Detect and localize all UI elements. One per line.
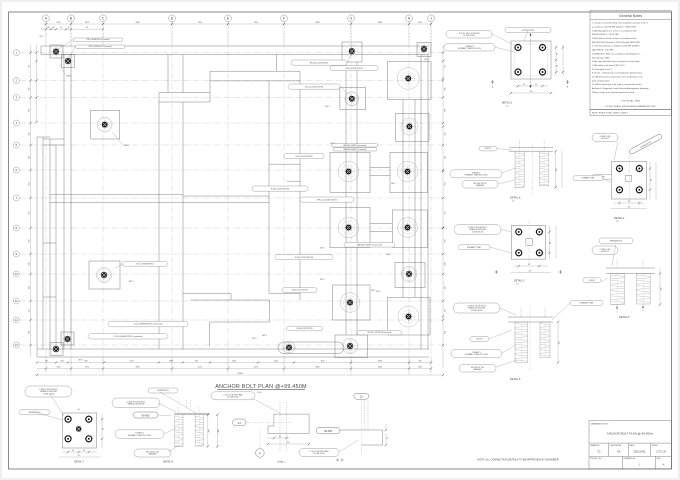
svg-text:472: 472	[445, 309, 447, 312]
svg-text:DRAWN BY:: DRAWN BY:	[590, 444, 601, 447]
svg-text:210: 210	[530, 91, 533, 93]
svg-text:DETAIL-6: DETAIL-6	[510, 197, 521, 200]
svg-text:13: 13	[360, 395, 364, 399]
svg-text:60: 60	[523, 84, 525, 86]
svg-text:150: 150	[47, 27, 50, 29]
svg-text:prior to fabrication: prior to fabrication	[592, 79, 610, 82]
svg-text:472: 472	[28, 309, 30, 312]
svg-text:508: 508	[445, 263, 447, 266]
svg-text:P.W 01/2/81, JWM: P.W 01/2/81, JWM	[622, 101, 640, 103]
svg-text:accordance with BS EN 10025-2: accordance with BS EN 10025-2 : S355 UNO	[592, 25, 636, 28]
svg-text:22.16.2-SHS80*80*8.0 (unnamed): 22.16.2-SHS80*80*8.0 (unnamed)	[114, 336, 143, 338]
svg-text:DETAIL-5: DETAIL-5	[510, 378, 521, 381]
svg-text:PROJECT No.: PROJECT No.	[590, 458, 602, 460]
svg-text:3. All hollow sections to be i: 3. All hollow sections to be in accordan…	[592, 37, 637, 40]
svg-text:22.76.7-SHS80*80*8.0: 22.76.7-SHS80*80*8.0	[136, 263, 154, 265]
svg-text:7. All welds to be 6mm FW U.N.: 7. All welds to be 6mm FW U.N.O	[592, 64, 625, 67]
svg-text:EXPAMET TUBE 350 LONG: EXPAMET TUBE 350 LONG	[128, 434, 151, 437]
svg-text:GROUT: GROUT	[485, 148, 492, 150]
svg-text:General Notes: General Notes	[619, 14, 642, 18]
svg-text:99.450: 99.450	[324, 429, 332, 433]
svg-text:5080: 5080	[136, 366, 140, 368]
svg-text:DRAWING No:: DRAWING No:	[624, 457, 636, 460]
svg-text:565: 565	[195, 360, 198, 362]
svg-text:350: 350	[661, 288, 663, 291]
svg-text:DETAIL-7: DETAIL-7	[74, 461, 85, 464]
svg-text:716: 716	[28, 65, 30, 68]
svg-text:J: J	[430, 17, 432, 21]
svg-text:13: 13	[15, 343, 19, 347]
svg-text:DETAIL-8: DETAIL-8	[163, 461, 174, 464]
svg-text:4300: 4300	[378, 22, 382, 24]
svg-text:(8g. HSFG) : S10 JR0: (8g. HSFG) : S10 JR0	[592, 50, 614, 52]
svg-text:90: 90	[528, 264, 530, 266]
svg-text:Please notify us of any discre: Please notify us of any discrepancies fo…	[592, 91, 635, 94]
svg-text:REV:: REV:	[657, 458, 662, 460]
svg-text:JW7.5: JW7.5	[78, 360, 83, 362]
svg-text:350: 350	[556, 169, 558, 172]
svg-text:2210: 2210	[274, 360, 278, 362]
svg-text:12: 12	[15, 318, 19, 322]
svg-text:60: 60	[83, 450, 85, 452]
svg-text:F: F	[283, 17, 285, 21]
svg-text:400: 400	[218, 430, 220, 433]
svg-text:1:5: 1:5	[506, 106, 509, 108]
svg-text:8.200-UC203*203*46: 8.200-UC203*203*46	[296, 328, 312, 330]
svg-text:1:75 1:20: 1:75 1:20	[656, 451, 667, 454]
svg-text:170: 170	[279, 436, 282, 438]
svg-text:EXPAMET TUBE: EXPAMET TUBE	[580, 302, 594, 305]
svg-text:JW7.5: JW7.5	[320, 248, 325, 250]
svg-text:EXPAMET TUBE: EXPAMET TUBE	[467, 246, 481, 249]
svg-text:1340: 1340	[232, 360, 236, 362]
svg-text:4170: 4170	[254, 366, 258, 368]
svg-text:4960: 4960	[316, 366, 320, 368]
svg-text:755: 755	[28, 212, 30, 215]
svg-text:9. Finish : Galvanised as per: 9. Finish : Galvanised as per Engineer S…	[592, 72, 643, 75]
svg-text:C06.4-UC203*203*46: C06.4-UC203*203*46	[295, 156, 312, 158]
svg-text:Specification URS: Specification URS	[592, 56, 610, 59]
svg-text:745: 745	[45, 360, 48, 362]
svg-text:JW7.5: JW7.5	[124, 145, 129, 147]
svg-text:2375: 2375	[85, 366, 89, 368]
svg-text:DETAIL-i: DETAIL-i	[277, 461, 286, 464]
svg-text:HD BOLT: HD BOLT	[601, 251, 610, 253]
svg-text:EXPAMET TUBE 350 LONG: EXPAMET TUBE 350 LONG	[458, 47, 481, 50]
svg-text:ANCHOR BOLT PLAN @+99.450M: ANCHOR BOLT PLAN @+99.450M	[215, 384, 307, 390]
svg-text:633: 633	[28, 156, 30, 159]
svg-text:633: 633	[445, 109, 447, 112]
svg-text:90: 90	[103, 428, 105, 430]
svg-text:EXPAMET TUBE 350 LONG: EXPAMET TUBE 350 LONG	[465, 353, 488, 356]
svg-text:1:5: 1:5	[516, 283, 519, 285]
svg-text:350: 350	[559, 342, 561, 345]
svg-text:4300: 4300	[378, 366, 382, 368]
svg-text:G: G	[350, 17, 353, 21]
svg-text:99.450: 99.450	[142, 413, 150, 417]
svg-text:90: 90	[557, 65, 559, 67]
svg-text:8.200-UC203*203*46: 8.200-UC203*203*46	[295, 257, 313, 259]
svg-text:1815: 1815	[57, 22, 61, 24]
svg-text:DETAIL-2: DETAIL-2	[502, 102, 513, 105]
svg-text:BS EN 10025-2 : S275 JR0: BS EN 10025-2 : S275 JR0	[592, 34, 619, 36]
svg-text:210: 210	[628, 207, 631, 209]
svg-text:F: F	[259, 452, 261, 456]
svg-text:94: 94	[60, 27, 62, 29]
svg-text:C03-1-UC203*203*46: C03-1-UC203*203*46	[305, 86, 323, 88]
svg-text:SCALE:: SCALE:	[652, 444, 659, 447]
svg-text:8.200-UC203*203*46: 8.200-UC203*203*46	[271, 188, 289, 190]
svg-text:SHS80*80*8.0: SHS80*80*8.0	[157, 390, 169, 392]
svg-text:4170: 4170	[198, 366, 202, 368]
svg-text:633: 633	[28, 109, 30, 112]
svg-text:DETAIL-4: DETAIL-4	[614, 217, 625, 220]
svg-text:JW7.5: JW7.5	[376, 291, 381, 293]
svg-text:1980: 1980	[378, 360, 382, 362]
svg-text:2-M1.2-SHS80*80*8.0 (unnamed): 2-M1.2-SHS80*80*8.0 (unnamed)	[88, 46, 112, 48]
svg-text:4960: 4960	[316, 22, 320, 24]
svg-text:4170: 4170	[198, 22, 202, 24]
svg-text:10: 10	[15, 272, 19, 276]
svg-text:22 DIA. HOLE: 22 DIA. HOLE	[471, 309, 483, 312]
svg-text:22.16.2-SHS80*80*8.0 (unnamed): 22.16.2-SHS80*80*8.0 (unnamed)	[134, 324, 163, 326]
svg-text:90: 90	[550, 242, 552, 244]
svg-text:633: 633	[28, 240, 30, 243]
svg-text:1210: 1210	[130, 360, 134, 362]
svg-text:2375: 2375	[85, 22, 89, 24]
svg-text:10. All dimensions and levels: 10. All dimensions and levels to be conf…	[592, 76, 644, 79]
svg-text:280: 280	[85, 360, 88, 362]
svg-text:BR-24-UC203*203*46: BR-24-UC203*203*46	[310, 62, 329, 64]
svg-text:5. All Anchors Bolts in acco: 5. All Anchors Bolts in accordance with …	[592, 52, 641, 55]
svg-text:1. Grades for all hot rolled: 1. Grades for all hot rolled steel stand…	[592, 22, 649, 25]
svg-text:GROUT: GROUT	[476, 339, 483, 341]
svg-text:2980: 2980	[169, 360, 173, 362]
svg-text:HD BOLT: HD BOLT	[601, 138, 610, 140]
svg-text:NOTE: EXECUTION CLASS: CLASS 2: NOTE: EXECUTION CLASS: CLASS 2	[592, 112, 629, 115]
svg-text:18 DIA. HOLE: 18 DIA. HOLE	[313, 452, 325, 455]
svg-text:5080: 5080	[136, 22, 140, 24]
svg-text:694: 694	[28, 183, 30, 186]
svg-text:18 DIA. HOLE: 18 DIA. HOLE	[227, 396, 239, 399]
svg-text:1625: 1625	[418, 366, 422, 368]
svg-text:633: 633	[445, 156, 447, 159]
svg-text:1815: 1815	[57, 366, 61, 368]
svg-text:1625: 1625	[418, 22, 422, 24]
svg-text:508: 508	[28, 263, 30, 266]
svg-text:DO NOT SCALE, USE FIGURED DIME: DO NOT SCALE, USE FIGURED DIMENSIONS ONL…	[605, 105, 656, 108]
svg-text:EXPAMET TUBE 350 LONG: EXPAMET TUBE 350 LONG	[465, 174, 488, 177]
svg-text:22 DIA. HOLE: 22 DIA. HOLE	[463, 34, 475, 37]
svg-text:633: 633	[28, 331, 30, 334]
svg-text:2. All filling plates etc to b: 2. All filling plates etc to be in accor…	[592, 29, 637, 32]
svg-text:118: 118	[287, 442, 290, 444]
svg-text:90: 90	[651, 179, 653, 181]
svg-text:TD: TD	[597, 451, 600, 454]
svg-text:75: 75	[387, 437, 389, 439]
svg-text:210: 210	[78, 455, 81, 457]
svg-text:JW7.5: JW7.5	[371, 290, 376, 292]
svg-text:GRADE 4.6/G250GR: GRADE 4.6/G250GR	[128, 402, 146, 405]
svg-text:JW7.5: JW7.5	[262, 335, 267, 337]
svg-text:430: 430	[419, 360, 422, 362]
svg-text:11: 11	[15, 299, 18, 303]
svg-text:267.5: 267.5	[40, 36, 44, 38]
svg-text:633: 633	[445, 240, 447, 243]
svg-text:22 DIA. HOLE: 22 DIA. HOLE	[43, 392, 55, 395]
svg-text:94: 94	[68, 27, 70, 29]
svg-text:DETAIL-5: DETAIL-5	[619, 316, 630, 319]
svg-text:WASHER: WASHER	[476, 184, 485, 187]
svg-text:210: 210	[529, 271, 532, 273]
svg-text:550: 550	[28, 133, 30, 136]
svg-text:8.200-UC203*203*46: 8.200-UC203*203*46	[291, 290, 307, 292]
svg-text:661: 661	[28, 286, 30, 289]
svg-text:22 DIA. HOLE: 22 DIA. HOLE	[472, 230, 484, 233]
svg-text:975: 975	[86, 27, 89, 29]
svg-text:27445: 27445	[237, 373, 242, 375]
svg-text:EXPAMET TUBE: EXPAMET TUBE	[582, 177, 596, 180]
svg-text:Architect's, Engineer's and Ge: Architect's, Engineer's and General Arra…	[592, 87, 650, 90]
svg-text:JW7.5: JW7.5	[386, 254, 391, 256]
svg-text:CHQ-UC203*203*46: CHQ-UC203*203*46	[345, 68, 362, 70]
svg-text:425: 425	[445, 88, 447, 91]
svg-text:716: 716	[445, 65, 447, 68]
svg-text:150: 150	[52, 27, 55, 29]
svg-text:90: 90	[628, 201, 630, 203]
svg-text:WASHER: WASHER	[474, 368, 483, 371]
svg-text:WASHER: WASHER	[149, 453, 158, 456]
svg-text:11. All the drawings to be rea: 11. All the drawings to be read in conju…	[592, 83, 642, 86]
svg-text:BS EN 10210 (Grade & 10219 (Gr: BS EN 10210 (Grade & 10219 (Grade S355 U…	[592, 41, 640, 44]
svg-text:SHS80*80*8.0: SHS80*80*8.0	[610, 241, 622, 243]
svg-text:JW7.5: JW7.5	[424, 59, 429, 61]
svg-text:GROUT: GROUT	[589, 280, 596, 282]
svg-text:550: 550	[445, 133, 447, 136]
svg-text:1:5: 1:5	[616, 221, 619, 223]
svg-text:2022/10/01: 2022/10/01	[634, 451, 647, 454]
svg-text:JW7.5: JW7.5	[330, 143, 335, 145]
svg-text:DRAWING TITLE:: DRAWING TITLE:	[591, 423, 609, 426]
svg-text:BR-26-UC203*203*46 (unnamed): BR-26-UC203*203*46 (unnamed)	[368, 332, 392, 334]
svg-text:6. An specified weld sizes: 6. An specified weld sizes are given as …	[592, 60, 640, 63]
svg-text:661: 661	[445, 286, 447, 289]
svg-text:JW7.5: JW7.5	[129, 281, 134, 283]
svg-text:60: 60	[557, 53, 559, 55]
svg-text:JW7.5: JW7.5	[325, 106, 330, 108]
svg-text:JW7.5: JW7.5	[252, 338, 257, 340]
svg-text:4. The bossed bolt assemblies: 4. The bossed bolt assemblies to BS EN 1…	[592, 45, 641, 48]
svg-text:4170: 4170	[254, 22, 258, 24]
svg-text:CHECKED BY:: CHECKED BY:	[610, 445, 623, 447]
svg-text:60: 60	[72, 450, 74, 452]
svg-text:2-M1.2-SHS80*80*8.0 (unnamed): 2-M1.2-SHS80*80*8.0 (unnamed)	[86, 39, 110, 41]
svg-text:JW1.5: JW1.5	[391, 183, 396, 185]
svg-text:AA: AA	[617, 451, 621, 454]
svg-text:633: 633	[445, 331, 447, 334]
svg-text:755: 755	[445, 212, 447, 215]
svg-text:425: 425	[28, 88, 30, 91]
svg-text:DETAIL-3: DETAIL-3	[514, 280, 525, 283]
svg-text:JW1.5: JW1.5	[66, 76, 71, 78]
svg-text:NOTE: ALL CONNECTION DETAILS T: NOTE: ALL CONNECTION DETAILS TO BE APPRO…	[477, 458, 558, 461]
svg-text:DATE:: DATE:	[630, 444, 636, 447]
svg-text:350: 350	[208, 430, 210, 433]
svg-text:1105: 1105	[321, 360, 325, 362]
svg-text:BPL-20-UC203*203*46: BPL-20-UC203*203*46	[317, 199, 337, 201]
svg-text:90: 90	[535, 84, 537, 86]
svg-text:940: 940	[61, 360, 64, 362]
svg-text:1:5: 1:5	[512, 201, 515, 203]
svg-text:JW7.5: JW7.5	[320, 279, 325, 281]
svg-text:8. Execution Class 2: 8. Execution Class 2	[592, 68, 613, 71]
svg-text:ANCHOR BOLT PLAN @ 99.450m: ANCHOR BOLT PLAN @ 99.450m	[607, 432, 654, 436]
svg-text:694: 694	[445, 183, 447, 186]
svg-text:13: 13	[238, 421, 242, 425]
